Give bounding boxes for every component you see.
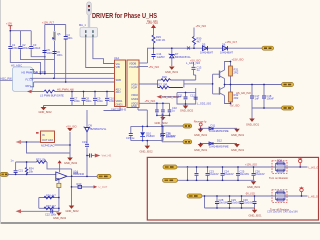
wire cap drop 2 [83,92,85,106]
wire signal RDY [30,82,115,87]
svg-text:D9: D9 [89,124,93,128]
svg-text:DRIVER for Phase U_HS: DRIVER for Phase U_HS [92,11,157,20]
wire R31 bottom [230,76,232,85]
ground GND reg [64,158,78,165]
svg-text:GND2: GND2 [131,97,139,101]
dashed box turn-on [272,161,287,174]
wire r1cap0 [196,167,198,180]
svg-text:100n: 100n [74,99,80,103]
wire div top [39,197,59,199]
wire base rail [212,74,214,94]
wire r2cap2 [229,196,231,208]
capacitor Cg1 [206,173,210,175]
capacitor Cg8 [240,202,244,204]
junction base-in [212,83,214,85]
wire r2cap3 [241,196,243,208]
svg-text:GND_ISO1: GND_ISO1 [246,123,260,127]
svg-text:+15V_ISO: +15V_ISO [146,21,158,25]
junction r2d [241,195,243,197]
junction aux1 [161,125,163,127]
wire R32 bottom [230,102,232,104]
wire connector stem [88,15,90,28]
svg-text:Vref_HS: Vref_HS [102,154,112,158]
capacitor Cm3 [168,110,172,112]
zener D9 [84,127,91,132]
port HS_G yellow [282,83,294,87]
wire port to reg [21,141,41,143]
wire amp input rail [8,173,56,175]
wire row1 bottom [178,179,255,181]
node A2 junction [44,73,46,75]
junction r1p [187,166,189,168]
svg-text:GND: GND [131,104,137,108]
capacitor C10 [105,98,109,100]
svg-text:100uF: 100uF [12,46,20,50]
junction led2 [146,126,148,128]
wire vref tap [87,155,89,157]
capacitor C18 [262,96,266,98]
svg-text:VIB: VIB [116,65,120,69]
diode D11 [209,127,213,130]
svg-text:SDB: SDB [116,78,122,82]
transformer TR1 [80,28,98,38]
svg-text:VO/AMP: VO/AMP [129,65,139,69]
capacitor Cm1 [155,110,159,112]
wire cap drop 3 [94,92,96,106]
capacitor C31 [160,134,164,136]
svg-text:10u/16V: 10u/16V [224,172,234,176]
svg-text:C19: C19 [82,140,87,144]
svg-text:GND_ISO2: GND_ISO2 [155,121,169,125]
svg-text:10u/16V: 10u/16V [219,201,229,205]
junction led1 [142,126,144,128]
svg-text:D6: D6 [222,42,226,46]
svg-text:4k7: 4k7 [197,40,202,44]
svg-text:2R2: 2R2 [234,71,239,75]
wire cap C2 branch [21,31,55,60]
wire to port B [162,141,183,143]
svg-text:100n: 100n [57,53,63,57]
junction led3 [162,126,164,128]
wire +5V iso label drop [194,62,196,75]
svg-text:+15V_ISO: +15V_ISO [232,58,244,62]
wire to port A [162,125,183,127]
svg-text:NCP431AC: NCP431AC [41,144,55,148]
wire fb res branch [26,162,28,174]
svg-text:HS_GD_ISO2: HS_GD_ISO2 [163,95,180,99]
svg-text:GND_ISO2: GND_ISO2 [64,161,78,165]
capacitor C11 [184,97,188,99]
svg-text:-5V_ISO: -5V_ISO [230,104,240,108]
wire snub row B [201,143,238,145]
ground snubB right [231,144,245,152]
junction r2a [204,195,206,197]
wire r2cap4 [254,196,256,208]
wire out cap drop1 [251,85,253,109]
junction r2c [229,195,231,197]
junction o3 [263,107,265,109]
wire ron loop [276,164,299,171]
wire div bottom [39,207,59,209]
svg-text:GND_ISO1: GND_ISO1 [194,133,208,137]
node C junction [65,81,67,83]
svg-text:HS_PWM_HN: HS_PWM_HN [57,88,74,92]
capacitor Cg0 [195,173,199,175]
wire cap bank top rail [10,30,31,32]
junction r2flag [301,195,303,197]
svg-text:GND_ISO2: GND_ISO2 [53,216,67,220]
svg-text:GND_ISO1: GND_ISO1 [231,133,245,137]
svg-text:L_HS_G: L_HS_G [308,194,318,198]
diode D6 [223,46,228,51]
junction mc3 [156,115,158,117]
svg-text:1N4148WS/PME: 1N4148WS/PME [209,145,229,149]
wire row2 bottom [205,207,255,209]
ground GND minigrid [155,115,169,125]
port G1 yellow [163,165,177,169]
junction mc2 [162,102,164,104]
wire led branch [142,126,144,140]
power sym +5V reg [66,124,77,131]
junction o2 [263,84,265,86]
svg-text:+15V_ISO: +15V_ISO [245,162,257,166]
wire cap C1 branch [10,31,40,74]
svg-text:+5V_ISO: +5V_ISO [66,124,77,128]
wire aux vertical [161,114,163,142]
resistor R29 [152,35,155,43]
wire roff loop [276,193,299,200]
wire top rail [148,48,263,63]
ground GND fb [66,206,80,214]
svg-text:R26: R26 [162,75,167,79]
junction dec2 [185,103,187,105]
resistor Roff1 [277,191,284,194]
wire gnd stub led [146,141,148,146]
ground snubB left [194,144,208,152]
junction emitters [224,84,226,86]
svg-text:R38: R38 [277,159,282,163]
port arrow IN [27,90,32,94]
svg-text:R35: R35 [74,171,79,175]
wire opamp out [67,175,97,177]
wire gnd drop [251,108,253,119]
wire decouple loop [177,88,196,104]
junction r2i [241,207,243,209]
wire minicap2 [162,103,164,115]
diode D5 [203,46,208,51]
svg-text:100n: 100n [47,51,53,55]
port G2 yellow [163,178,178,182]
svg-text:C15 1u: C15 1u [126,136,135,140]
junction j95 [94,91,96,93]
node B junction [53,77,55,79]
frame bottom edge [0,222,320,224]
junction r1b [222,166,224,168]
svg-text:HS_ASIC: HS_ASIC [11,63,22,67]
capacitor C2 [19,47,23,49]
wire amp plus stub [56,178,59,211]
capacitor C12b [194,97,198,99]
flag net1 [298,158,302,167]
svg-text:GND_ISO1: GND_ISO1 [165,70,179,74]
wire led loop bottom [131,140,163,142]
wire led loop left [130,126,132,140]
junction a15 [15,174,17,176]
svg-text:100n: 100n [86,99,92,103]
wire r2cap1 [216,196,218,208]
junction r1a [207,166,209,168]
resistor R31 [229,66,233,76]
wire r1 left vert [187,167,189,180]
wire out cap drop2 [263,85,265,109]
capacitor Cfb [14,171,18,173]
wire Q1 collector [225,62,231,71]
wire fb top [16,162,72,176]
junction rail-5 [193,47,195,49]
junction r1c [237,166,239,168]
wire +15V drop [153,28,155,35]
op-coupler U1B [127,60,139,108]
wire fb to gnd [71,176,73,205]
wire LS rail port stub [32,91,45,93]
junction r1i [237,179,239,181]
svg-text:GND_ISO1: GND_ISO1 [247,185,261,189]
wire Q1 emitter to rail [224,79,226,85]
svg-text:C21: C21 [18,169,23,173]
svg-text:10R 1%: 10R 1% [156,38,166,42]
junction r2g [216,207,218,209]
capacitor Cg2 [221,173,225,175]
wire branch A vertical [44,25,46,74]
capacitor Cg6 [215,202,219,204]
junction regout [69,144,71,146]
wire fb cap branch [15,162,17,174]
wire decouple cap1 [185,93,187,105]
svg-text:100nF: 100nF [267,97,275,101]
resistor FB1 [78,185,82,188]
port P_VCC yellow [262,46,274,50]
wire R31 top [230,62,232,67]
junction r1a0 [196,166,198,168]
wire Q2 emitter [224,85,226,88]
svg-text:10u/16V: 10u/16V [166,134,176,138]
svg-text:10u/16V: 10u/16V [243,201,253,205]
wire sheet left stub [0,79,12,81]
flag net2 [300,187,304,196]
wire signal HS_PWM [30,70,115,74]
junction rail-gnd [171,47,173,49]
junction d2 [58,207,60,209]
wire transformer out1 [86,37,115,67]
wire GND drop [171,48,173,66]
wire led loop right [162,126,164,140]
port AUX1 yellow [183,124,192,128]
wire r1cap2 [222,167,224,180]
capacitor C9 [93,98,97,100]
junction capbank [9,30,11,32]
transistor Q2 base bar [219,87,221,95]
capacitor C1 [8,47,12,49]
svg-text:U1A: U1A [114,56,119,60]
svg-text:10k: 10k [29,169,34,173]
svg-text:-: - [57,174,58,177]
wire base feed [184,83,213,85]
junction a27t [26,161,28,163]
wire vref column main [86,110,88,176]
dashed box turn-off [272,190,287,203]
ground GND_ISO2 mid [180,104,194,113]
led D10 [140,132,145,136]
svg-text:BZX84C5V1L: BZX84C5V1L [91,127,107,131]
svg-text:100n: 100n [97,99,103,103]
op-coupler U1A [115,60,126,107]
transistor Q5 blob [53,32,55,41]
wire r1cap1 [207,167,209,180]
capacitor Cg3 [236,173,240,175]
connector J2 [87,2,91,15]
capacitor C8 [82,98,86,100]
capacitor C19 [85,144,89,146]
junction r1h [222,179,224,181]
ground snubA right [231,129,245,137]
wire snub row A [201,127,238,129]
junction snubA [200,127,202,129]
svg-text:GND_ISO1: GND_ISO1 [194,148,208,152]
svg-text:Turn-off Resistor: Turn-off Resistor [270,207,289,211]
zener D7 [169,54,175,58]
wire led loop feed [138,108,147,127]
wire reg out [55,144,71,146]
junction o1 [251,84,253,86]
svg-text:C11: C11 [178,94,183,98]
svg-text:10u/16V: 10u/16V [255,172,265,176]
capacitor C15 [129,134,133,136]
svg-text:MA_1: MA_1 [79,23,86,27]
port HS_S yellow [282,106,294,110]
svg-text:GND_ISO2: GND_ISO2 [140,150,154,154]
wire +5V drop [193,28,195,37]
svg-text:Q5: Q5 [57,32,61,36]
svg-text:ADJ: ADJ [116,90,122,94]
svg-text:+5V_ISO: +5V_ISO [145,99,156,103]
svg-text:1N4148WT: 1N4148WT [200,51,214,55]
resistor R33 [37,161,47,164]
svg-text:-5V_ISO: -5V_ISO [245,192,255,196]
svg-text:GND_ISO1: GND_ISO1 [249,213,263,217]
wire cap C14 drop [153,48,155,59]
wire R29 to rail [153,43,155,48]
junction a87 [86,176,88,178]
svg-text:HS_PWM: HS_PWM [35,70,46,74]
svg-text:U_OUT: U_OUT [99,185,108,189]
svg-text:PGB10: PGB10 [146,134,155,138]
svg-text:C22 100n: C22 100n [45,213,57,217]
red pin1 mark [36,132,39,134]
port arrow sense [94,185,98,188]
svg-text:100n: 100n [109,99,115,103]
svg-text:+5V_ISO: +5V_ISO [149,65,160,69]
svg-text:100n: 100n [67,36,73,40]
resistor Roff2 [277,198,284,201]
svg-text:L_HS_G: L_HS_G [309,165,319,169]
wire caps bottom rail [44,105,108,107]
capacitor C16 [161,134,165,136]
capacitor C14 [152,55,156,57]
junction fb [71,186,73,188]
ground GND_ISO1 out [246,119,260,127]
wire bottom cap row [21,210,59,212]
transistor Q2 wires [213,87,225,96]
svg-text:VDD2: VDD2 [131,93,138,97]
junction r1flag [299,166,301,168]
wire row2 left vert [204,196,206,208]
capacitor C3 [29,47,33,49]
junction loopA-rail [44,56,46,58]
power stem opamp [59,163,61,172]
capacitor C17 [250,96,254,98]
resistor R32 [229,92,233,102]
port arrow bcap [16,209,22,213]
svg-text:VO/P: VO/P [131,86,137,90]
junction rail-15 [153,47,155,49]
wire LS rail [55,91,115,93]
wire output rail [225,84,282,86]
wire input loop top rail [45,24,66,26]
junction mc1 [156,102,158,104]
wire r1cap4 [253,167,255,180]
transistor Q1 wires [213,70,225,79]
wire minicap1 [156,103,158,115]
resistor R28 [44,90,55,93]
junction r31 [230,84,232,86]
port arrow HS_GD_ISO [157,95,162,99]
wire transformer out2 [93,37,115,63]
svg-text:OUT ADJ: OUT ADJ [42,138,54,142]
svg-text:D11: D11 [211,123,216,127]
capacitor Cg9 [253,202,257,204]
svg-text:D5: D5 [202,42,206,46]
wire signal FLT [30,77,115,79]
wire sense row [72,186,94,188]
capacitor C6 [53,52,57,54]
svg-text:IN: IN [42,133,45,137]
capacitor C4 [64,37,68,40]
svg-text:+5V_ISO: +5V_ISO [196,24,207,28]
svg-text:R37 4k7: R37 4k7 [46,204,56,208]
svg-text:10u/16V: 10u/16V [240,172,250,176]
junction j83 [83,91,85,93]
svg-text:1nF: 1nF [255,97,260,101]
wire cap drop 1 [71,92,73,106]
wire VDD2 row [139,102,170,104]
capacitor Cg5 [252,173,256,175]
capacitor Cm2 [161,110,165,112]
capacitor Cb [51,209,53,213]
wire HS_GD stub [162,96,181,98]
resistor R30 [193,37,196,45]
svg-text:1N4148WT: 1N4148WT [220,51,234,55]
junction r1d [253,166,255,168]
svg-text:R40: R40 [77,182,82,186]
svg-text:100uF: 100uF [22,46,30,50]
ground GND_ISO1 top [165,67,179,74]
junction j72 [71,91,73,93]
junction mc4 [162,115,164,117]
wire cap drop 4 [106,92,108,106]
ground snubA left [194,129,208,137]
wire branch B vertical [54,25,56,79]
svg-text:R36 4k7: R36 4k7 [46,193,56,197]
